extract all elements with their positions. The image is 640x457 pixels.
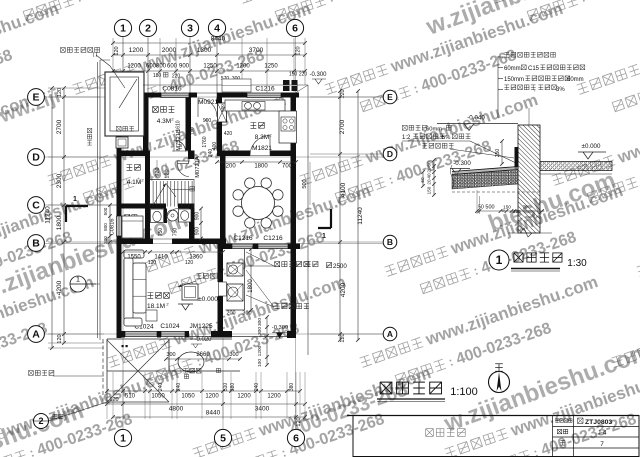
svg-text:4.3M: 4.3M [157,118,171,125]
AC sleeve in wall grid5 [219,282,227,296]
svg-text:M1821: M1821 [252,145,272,152]
svg-text:C0816: C0816 [110,218,116,235]
detail title bubble [489,250,509,270]
svg-text:240: 240 [158,383,164,392]
svg-text:1200: 1200 [237,394,251,400]
top dim total line [113,42,305,44]
wall north segment 1 [143,93,161,98]
svg-text:60: 60 [420,177,425,183]
top dim row3 [113,70,305,72]
svg-text:120: 120 [185,260,194,266]
entrance leader diag [48,402,107,421]
detail title text [514,253,523,262]
svg-text:800: 800 [103,223,108,231]
west window dims [109,205,111,242]
svg-text:1050: 1050 [181,394,195,400]
AC unit 1 [227,263,243,276]
bath door arc [166,209,178,222]
detail break line bottom [508,228,552,237]
wall stair hall divider [193,179,195,208]
svg-text:B: B [32,238,40,250]
grid bubble C left [28,197,45,214]
wall bath west [145,204,150,242]
grid bubble 4 top [208,19,225,36]
svg-text:1800: 1800 [254,164,268,170]
svg-text:1200: 1200 [267,394,281,400]
wall south segment 3 [211,331,232,338]
svg-text:900: 900 [179,64,190,70]
apron tick NE [296,85,308,93]
svg-text:1760: 1760 [202,136,208,147]
door M0721A leaf and arc [178,161,189,164]
svg-text:800: 800 [156,64,167,70]
grid axis line C [44,204,118,206]
left extension lines [48,87,113,89]
kitchen flue shafts [283,80,290,91]
septic tank [105,72,144,136]
svg-text:JM1225: JM1225 [189,323,213,330]
door M1821 opening [250,155,270,157]
svg-text:1360: 1360 [189,255,203,261]
svg-text:A: A [387,329,393,339]
svg-text:D: D [32,152,40,164]
entrance up marks [184,374,188,378]
svg-text:300: 300 [166,352,175,358]
window C1216 Bb [258,244,288,249]
wall grid4 interior [217,98,223,104]
svg-text:-0.020: -0.020 [194,337,212,343]
hall flue block [218,103,227,122]
north arrow [489,372,510,393]
svg-text:420: 420 [224,131,233,137]
svg-text:120: 120 [57,88,63,97]
svg-text:2660: 2660 [196,352,210,358]
svg-text:150: 150 [289,72,298,78]
svg-text:150: 150 [427,186,432,194]
wall D kitchen seg2 [270,151,296,157]
wall west segment upper [117,135,122,216]
right dim inner [339,91,341,340]
svg-text:250: 250 [495,149,501,158]
detail note 4 [498,89,503,91]
detail callout bubble west [70,276,86,292]
svg-text:1410: 1410 [154,255,168,261]
svg-text:1200: 1200 [127,64,141,70]
canopy dashed [103,339,110,403]
wall grid2 interior [143,98,149,151]
detail note 3 [498,78,503,80]
room living label [148,293,154,299]
wall B segment 3 [288,244,300,250]
kitchen door M1821 arc [250,136,270,156]
svg-text:1: 1 [120,433,126,445]
svg-text:510: 510 [125,394,136,400]
svg-text:100: 100 [257,359,263,367]
detail note joint [422,143,427,148]
svg-text:1: 1 [496,253,503,267]
svg-text:4200: 4200 [56,280,63,295]
grid axis line E [44,96,384,98]
svg-text:5%: 5% [442,135,450,141]
svg-text:2700: 2700 [56,119,63,134]
wall south pier mid [157,331,161,338]
grid bubble 5 bottom [214,429,231,446]
svg-text:120: 120 [340,333,346,342]
window C0816 north [161,93,189,98]
bottom dim row3 [113,416,305,418]
svg-text:-0.040: -0.040 [467,115,485,122]
svg-text:1800: 1800 [56,215,63,230]
detail note 2 [498,67,503,69]
wall east corridor [291,249,297,338]
detail apron pebble layer [452,170,518,190]
svg-text:-0.300: -0.300 [453,160,471,167]
svg-text:E: E [32,92,39,104]
svg-text:120: 120 [296,46,302,55]
svg-text:4200: 4200 [340,282,347,297]
top dim row2 [113,54,305,56]
svg-text:7: 7 [600,441,604,448]
hall door M0921 arc [198,98,217,117]
svg-text:510: 510 [223,383,229,392]
room dining label [246,193,252,199]
detail flashing black [515,147,519,169]
svg-text:1200: 1200 [129,47,144,54]
grid bubble 2 top [139,19,156,36]
washbasin counter [179,209,192,222]
svg-text:C15: C15 [528,66,540,72]
svg-text:1550: 1550 [127,255,141,261]
svg-text:1: 1 [73,196,77,203]
title block labels [555,419,559,423]
svg-text:1250: 1250 [203,64,217,70]
svg-text:J-4: J-4 [597,430,606,437]
main entrance ellipse [178,352,204,372]
svg-text:750: 750 [173,228,179,237]
svg-text:( ): ( ) [93,52,98,58]
detail note flashing [402,125,407,130]
svg-text:60: 60 [427,161,432,167]
grid bubble 1 top [114,19,131,36]
drain well [116,137,128,148]
svg-text:240: 240 [254,383,260,392]
window C1216 north [247,93,281,98]
top step-up mark [163,72,168,77]
svg-text:60mm: 60mm [426,127,442,133]
grid axis line 2 [147,36,149,95]
room storage label [127,165,133,171]
svg-text:1: 1 [322,233,326,240]
apron line north [100,60,308,85]
grid bubble 6 bottom [287,429,304,446]
section mark right [318,209,331,228]
svg-text:220: 220 [299,72,308,78]
sofa L-shape [124,258,133,320]
svg-text:1200: 1200 [257,345,263,356]
svg-text:380: 380 [289,383,295,392]
svg-text:-0.300: -0.300 [309,72,327,78]
section mark left [66,206,88,222]
right extension lines [310,96,384,98]
wall south segment 2 [185,331,189,338]
main title [380,382,392,394]
svg-text:3700: 3700 [249,47,264,54]
bottom dim row1 [107,390,300,392]
detail note 1 [498,56,503,58]
svg-text:6: 6 [292,23,298,35]
right dim outer [357,91,359,340]
svg-text:300: 300 [257,327,263,335]
svg-text:1:100: 1:100 [450,386,478,398]
door M0921 opening sill [197,92,217,94]
grid axis line D [44,156,384,158]
AC shaft outline [244,249,246,310]
svg-text:120: 120 [114,46,120,55]
drain well label [87,128,91,132]
svg-text:1200: 1200 [236,64,250,70]
shower basin [167,210,178,221]
grid bubble B left [28,235,45,252]
svg-text:2700: 2700 [339,119,346,134]
svg-text:-0.300: -0.300 [272,325,288,331]
svg-text:C: C [32,200,40,212]
svg-text:70: 70 [523,205,528,210]
svg-text:2000: 2000 [162,47,177,54]
grid axis line 6 [295,36,297,430]
grid axis line 5 [222,338,224,430]
note hanging cabinet [197,274,202,279]
left dim outer [51,88,53,348]
svg-text:3400: 3400 [255,406,270,413]
detail wall hatched [518,125,540,233]
AC outdoor note [275,304,280,309]
svg-text:120: 120 [296,417,302,426]
window C1024 a [125,332,157,337]
svg-text:900: 900 [195,212,201,221]
wall corridor south piers [287,331,296,338]
svg-text:C1216: C1216 [233,235,253,242]
svg-text:50: 50 [478,205,484,211]
svg-text:120: 120 [513,209,521,214]
porch pier dots [122,345,124,347]
svg-text:8440: 8440 [206,410,221,417]
wall grid5 interior [220,156,226,174]
north step platform [222,79,251,92]
svg-text:300: 300 [257,318,263,326]
svg-text:3: 3 [187,23,193,35]
wall C segment [117,204,167,209]
grid bubble 6 top [286,19,303,36]
wall east upper [291,93,297,250]
svg-text:1300: 1300 [197,47,212,54]
detail bottom dims [477,210,542,212]
door bath-living opening [153,238,172,240]
svg-text:60mm: 60mm [567,77,584,83]
tool room door arc [174,140,186,152]
kitchen bottom dims [217,161,296,163]
wall living top seg1 [117,239,154,245]
svg-text:11240: 11240 [357,207,364,225]
svg-text:6: 6 [293,433,299,445]
grid bubble A right [383,327,397,341]
living interior dims [123,251,223,253]
svg-text:150: 150 [503,205,511,210]
svg-text:1200: 1200 [205,394,219,400]
svg-text:1: 1 [120,23,126,35]
svg-text:120: 120 [165,169,171,178]
wall south segment 1 [117,331,126,338]
svg-text:20: 20 [427,179,432,185]
grid bubble B right [383,235,397,249]
svg-text:40: 40 [427,173,432,179]
title block drawing name [426,429,434,437]
svg-text:4100: 4100 [340,182,347,197]
svg-text:D: D [387,149,393,159]
svg-text:500: 500 [485,205,494,211]
detail leader stem [497,56,499,118]
grid axis line 4 [216,36,218,98]
grid bubble 1 bottom [114,429,131,446]
grid bubble D right [383,147,397,161]
window C1024 b [161,332,185,337]
toilet [151,209,164,223]
wall grid5 living [218,244,224,282]
svg-text:400: 400 [212,142,218,151]
svg-text:500: 500 [103,207,108,215]
wall bath east [189,204,195,245]
svg-text:C1216: C1216 [255,86,275,93]
wall B segment 2 [253,244,258,250]
svg-text:150mm: 150mm [504,77,524,83]
canopy X [107,340,169,402]
svg-text:60mm: 60mm [504,66,521,72]
svg-text:2: 2 [145,23,151,35]
detail floor right [540,162,612,171]
svg-text:1610: 1610 [176,120,182,131]
svg-text:300: 300 [229,352,238,358]
left dim inner [63,88,65,343]
svg-text:920: 920 [155,167,161,176]
grid bubble E left [28,89,45,106]
bottom extension lines [106,372,108,419]
kitchen stove [281,117,295,131]
detail wall axis line [528,108,530,125]
wall west segment lower [117,236,122,338]
porch slab [107,339,240,371]
svg-text:1250: 1250 [264,64,278,70]
grid bubble E right [383,90,397,104]
bottom dim row2 [107,403,305,405]
stairs [150,179,194,181]
svg-text:C1024: C1024 [160,323,180,330]
svg-text:750: 750 [178,142,183,150]
svg-text:900: 900 [195,227,201,236]
apron line east [307,85,309,355]
grid axis line 3 [189,36,191,98]
wall D segment 3 [188,151,195,160]
kitchen sink [242,102,265,111]
wall D segment 1 [117,151,151,157]
grid axis line 1 [122,36,124,430]
svg-text:200: 200 [226,311,235,317]
svg-text:180: 180 [190,127,195,135]
svg-text:±0.000: ±0.000 [198,296,218,303]
svg-text:8440: 8440 [211,36,226,43]
grid axis line A [44,333,384,335]
svg-text:C0816: C0816 [162,86,182,93]
step detail bubble 2 [34,414,49,429]
tv cabinet [182,284,198,300]
trellis note [29,371,34,376]
room tool-room label [153,107,159,113]
svg-text:900: 900 [203,118,212,124]
grid bubble A left [28,326,45,343]
AC louver note [275,262,280,267]
dining table with chairs [242,187,275,220]
svg-text:M0921: M0921 [198,99,218,106]
detail apron break left [451,165,454,189]
svg-text:18.1M: 18.1M [147,303,165,310]
svg-text:120: 120 [57,334,63,343]
detail left dims [433,160,435,195]
svg-text:1:2: 1:2 [402,135,411,141]
detail apron surface [452,167,518,175]
svg-text:750: 750 [158,228,164,237]
detail soil line [452,191,540,193]
svg-text:700: 700 [282,164,293,170]
svg-text:C1216: C1216 [263,235,283,242]
door JM1225 opening [189,336,211,338]
title block grid [553,416,640,457]
svg-text:2300: 2300 [56,173,63,188]
wall grid3 interior upper [186,98,192,151]
wall north segment 3 [217,93,247,98]
svg-text:±0.000: ±0.000 [582,143,601,150]
window C1216 Ba [232,244,253,249]
top extension lines [112,38,114,92]
kitchen counter [225,100,285,111]
window C0816 west [117,216,122,236]
grid axis line B [44,243,384,245]
svg-text:M0721A: M0721A [195,156,201,178]
hall dims 900 [200,209,202,239]
svg-text:300: 300 [103,236,108,244]
svg-text:1:30: 1:30 [567,258,587,269]
wall D kitchen seg [217,151,250,157]
svg-text:20: 20 [427,167,432,173]
wall bath partition [164,209,167,224]
svg-text:A: A [32,329,40,341]
room kitchen label [251,123,257,129]
septic tank leader note [61,48,66,53]
wall north segment 4 [281,93,299,98]
svg-text:120: 120 [201,238,206,246]
svg-text:B: B [387,237,393,247]
wall B segment 1 [220,244,232,250]
svg-text:2500: 2500 [333,263,347,270]
door M7521B opening D [172,150,188,152]
svg-text:120: 120 [148,260,157,266]
laundry counter [122,216,143,238]
room laundry label [125,215,130,220]
svg-text:500: 500 [302,179,308,188]
svg-text:4800: 4800 [169,406,184,413]
wall living top seg2 [172,239,226,245]
svg-text:11240: 11240 [45,206,52,224]
septic tank label [116,126,121,131]
svg-text:5: 5 [220,433,226,445]
AC unit 2 [227,284,243,301]
